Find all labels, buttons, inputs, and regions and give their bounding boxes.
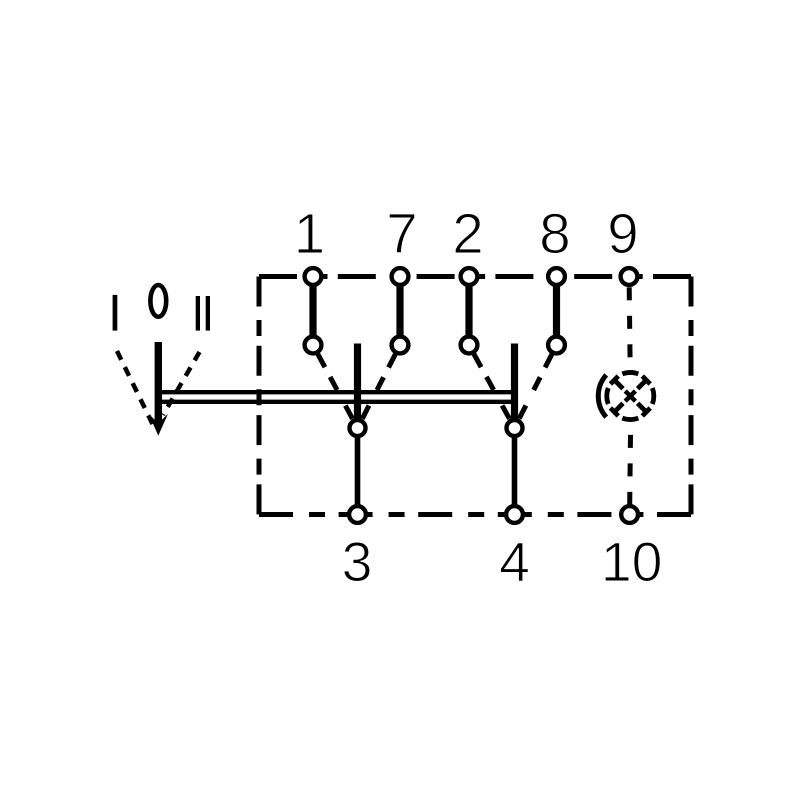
svg-text:10: 10: [601, 531, 663, 593]
contact 8 fixed arm wire: [553, 283, 560, 338]
terminal 4: [506, 506, 523, 523]
terminal 3: [349, 506, 366, 523]
switch housing dashed box: [259, 277, 691, 515]
lamp L (pilot lamp, dashed): [598, 372, 654, 419]
node 4 junction circle: [507, 420, 523, 436]
terminal 7: [392, 268, 409, 285]
contact 8 lower contact circle: [548, 337, 565, 354]
contact 2 lower contact circle: [461, 337, 478, 354]
lamp X arm upper-left with cap: [610, 376, 623, 389]
terminal 2: [461, 268, 478, 285]
wire column 4 upper (through actuator bar): [511, 344, 518, 421]
wire lamp to terminal 10 (dashed): [627, 435, 633, 505]
svg-text:9: 9: [607, 202, 638, 265]
lamp X arm upper-right with cap: [638, 376, 651, 389]
lamp center x: [625, 391, 635, 401]
svg-text:7: 7: [386, 202, 417, 265]
svg-text:2: 2: [452, 202, 483, 265]
moving contact path 2 to node 4 (dashed): [474, 354, 510, 419]
contact 7 fixed arm wire: [396, 283, 403, 338]
moving contact path 1 to node 3 (dashed): [318, 354, 353, 419]
lamp X arm lower-left with cap: [610, 403, 623, 416]
lamp left arc: [598, 375, 606, 417]
position label 0: [150, 285, 166, 317]
terminal 1: [305, 268, 322, 285]
wire node 3 to terminal 3: [355, 436, 361, 506]
actuator arrow: [149, 342, 168, 436]
position label II: [196, 296, 210, 331]
svg-text:8: 8: [539, 202, 570, 265]
wire column 3 upper (through actuator bar): [354, 344, 361, 421]
contact 1 lower contact circle: [305, 337, 322, 354]
svg-text:4: 4: [499, 531, 530, 593]
terminal 9: [621, 268, 638, 285]
moving contact path 8 to node 4 (dashed): [519, 354, 552, 419]
node 3 junction circle: [350, 420, 366, 436]
wire terminal 9 to lamp (dashed): [629, 287, 630, 370]
lamp circle cardinal dashes: [607, 372, 654, 419]
lamp X arm lower-right with cap: [638, 403, 651, 416]
actuator position I dashed line: [117, 351, 153, 424]
svg-text:1: 1: [294, 202, 325, 265]
terminal 10: [621, 506, 638, 523]
svg-text:3: 3: [342, 531, 373, 593]
position label I: [113, 295, 118, 331]
actuator bar (double line): [158, 392, 518, 402]
terminal 8: [548, 268, 565, 285]
actuator position II dashed line: [163, 352, 200, 415]
contact 1 fixed arm wire: [309, 283, 316, 338]
wire node 4 to terminal 4: [512, 436, 518, 506]
moving contact path 7 to node 3 (dashed): [362, 354, 395, 419]
contact 2 fixed arm wire: [465, 283, 472, 338]
contact 7 lower contact circle: [392, 337, 409, 354]
